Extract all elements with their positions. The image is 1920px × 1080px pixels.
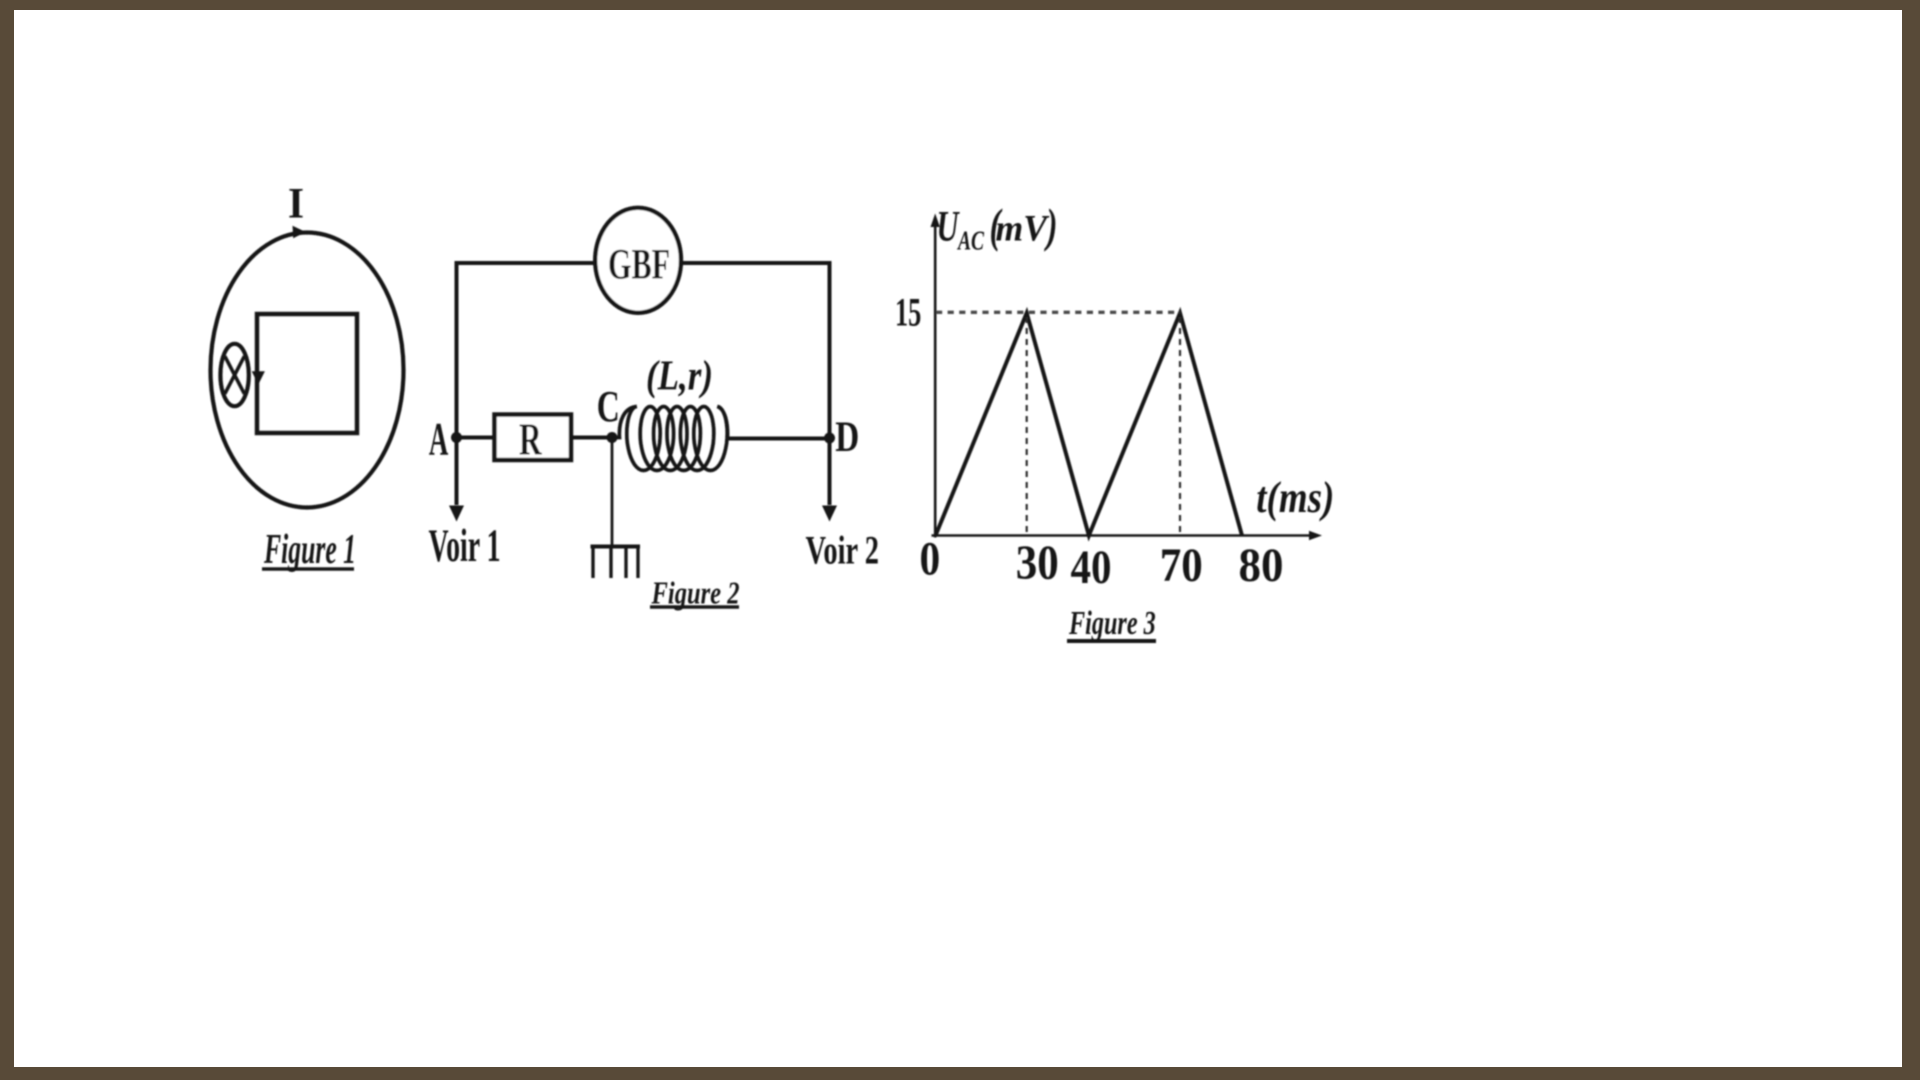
- flux symbol X line 2: [225, 356, 244, 393]
- GBF generator circle U1: [595, 208, 681, 313]
- svg-text:Figure 1: Figure 1: [263, 527, 356, 573]
- svg-text:Voir 2: Voir 2: [806, 528, 880, 573]
- y axis: [934, 218, 937, 538]
- inductor coil (L,r): [612, 407, 728, 471]
- node A: [451, 432, 462, 443]
- flux symbol X line 1: [225, 356, 244, 393]
- ground tooth 2: [609, 547, 612, 579]
- svg-text:A: A: [429, 413, 448, 465]
- svg-text:15: 15: [895, 290, 921, 335]
- node D: [824, 433, 835, 444]
- square coil frame: [257, 314, 357, 433]
- svg-text:t(ms): t(ms): [1256, 473, 1334, 522]
- field loop ellipse: [211, 233, 404, 508]
- ground bar: [591, 545, 641, 549]
- x axis: [932, 534, 1314, 537]
- node C: [607, 432, 618, 443]
- svg-text:): ): [1043, 200, 1057, 252]
- caption Figure 3 underline: [1067, 639, 1156, 643]
- ground tooth 1: [591, 547, 594, 579]
- caption Figure 2 underline: [650, 605, 739, 609]
- svg-text:0: 0: [920, 533, 941, 586]
- ground stem wire: [611, 438, 614, 547]
- wire R to C: [573, 436, 614, 440]
- y axis arrowhead: [931, 214, 940, 228]
- svg-text:I: I: [288, 181, 304, 228]
- svg-text:70: 70: [1160, 540, 1203, 592]
- resistor R box: [495, 415, 572, 461]
- dashed drop line at 30: [1026, 317, 1028, 533]
- dashed level 15 line: [936, 311, 1180, 314]
- current direction arrowhead: [293, 226, 306, 238]
- induced current arrowhead on square: [252, 371, 265, 384]
- dashed drop line at 70: [1179, 317, 1181, 533]
- svg-text:R: R: [519, 413, 542, 464]
- svg-text:30: 30: [1016, 535, 1059, 590]
- flux into page symbol circle: [220, 344, 248, 406]
- svg-text:Figure 2: Figure 2: [651, 575, 740, 611]
- svg-text:C: C: [597, 382, 620, 431]
- wire right branch: [683, 263, 830, 505]
- svg-text:40: 40: [1071, 542, 1112, 594]
- svg-text:U: U: [937, 203, 960, 250]
- caption Figure 1 underline: [262, 567, 354, 571]
- ground tooth 4: [636, 547, 639, 579]
- ground tooth 3: [624, 547, 627, 579]
- svg-text:D: D: [835, 414, 859, 461]
- svg-text:80: 80: [1239, 540, 1284, 592]
- wire left branch: [457, 263, 595, 505]
- wire A to R: [457, 436, 495, 440]
- wire coil to D: [728, 437, 830, 441]
- svg-text:Figure 3: Figure 3: [1068, 605, 1155, 642]
- Voir 2 probe arrowhead: [822, 506, 837, 522]
- svg-text:(L,r): (L,r): [646, 354, 713, 400]
- svg-text:Voir 1: Voir 1: [429, 520, 501, 572]
- triangular waveform: [936, 313, 1243, 536]
- svg-text:mV: mV: [996, 207, 1050, 248]
- Voir 1 probe arrowhead: [449, 506, 464, 522]
- svg-text:AC: AC: [957, 225, 985, 255]
- x axis arrowhead: [1309, 531, 1322, 540]
- svg-text:GBF: GBF: [608, 242, 670, 289]
